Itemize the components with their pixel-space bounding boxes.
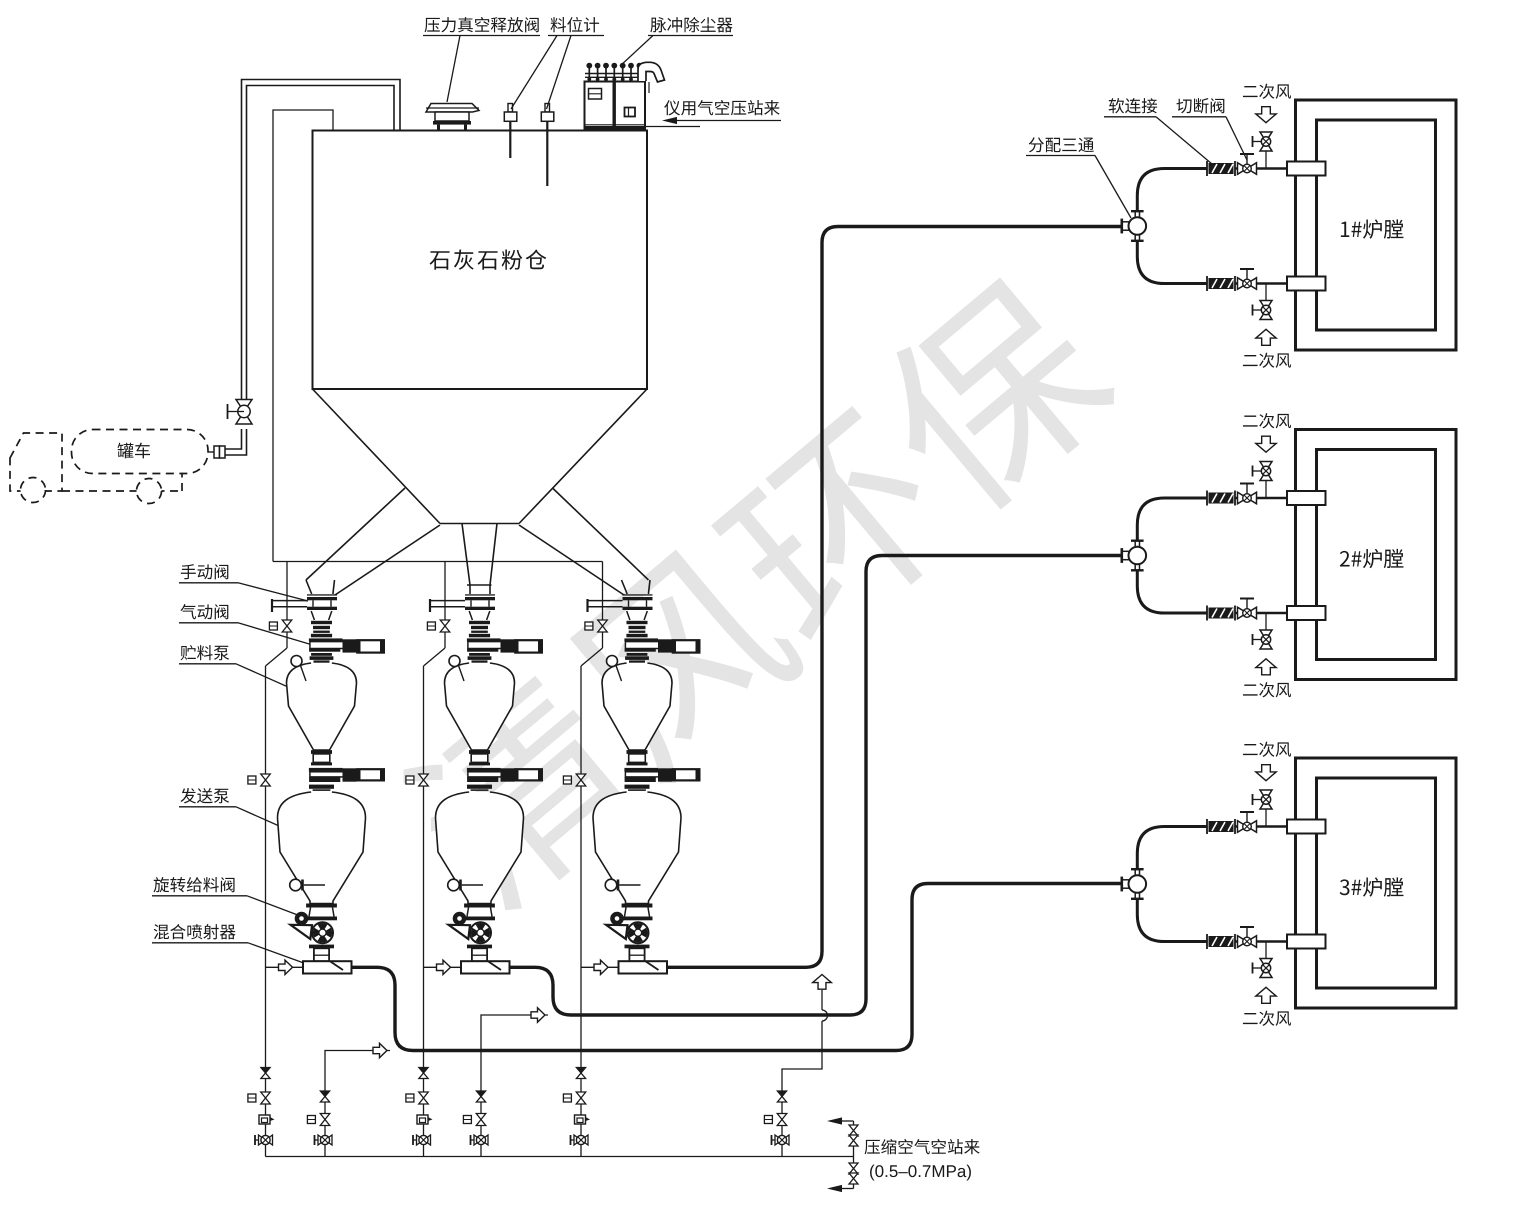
booster solenoid valve train 3 bbox=[777, 1114, 787, 1120]
feeder outlet neck train 3 bbox=[629, 948, 644, 961]
feeder motor train 1 bbox=[295, 912, 309, 926]
check valve stack-A train 3 bbox=[576, 1068, 585, 1074]
nozzle lower furnace 3 bbox=[1287, 935, 1326, 949]
furnace 2 label 2#炉膛 bbox=[1340, 549, 1404, 568]
valve actuator middle train 1 bbox=[343, 768, 357, 781]
air valve lower train 1 bbox=[261, 774, 271, 780]
ejector air inlet train 3 bbox=[581, 966, 619, 968]
manual valve 手动阀 train 3 bbox=[623, 594, 653, 595]
cutoff valve lower furnace 1 bbox=[1246, 269, 1248, 284]
sending pump level probe train 3 bbox=[605, 879, 617, 891]
valve actuator upper (气动阀) train 2 bbox=[501, 639, 515, 652]
manual valve 手动阀 train 2 bbox=[465, 594, 495, 595]
supply arrow lower bbox=[840, 1188, 854, 1190]
nozzle upper furnace 3 bbox=[1287, 820, 1326, 834]
booster air line train 2 bbox=[481, 1015, 548, 1157]
sending pump inlet flange train 2 bbox=[467, 785, 492, 789]
air valve lower train 3 bbox=[576, 774, 586, 780]
check valve stack-A train 1 bbox=[261, 1068, 270, 1074]
distribution pipe lower furnace 1 bbox=[1137, 241, 1207, 284]
furnace 1 inner wall bbox=[1317, 120, 1436, 330]
furnace 3 inner wall bbox=[1317, 778, 1436, 988]
sending pump inlet flange train 1 bbox=[309, 785, 334, 789]
booster solenoid valve train 1 bbox=[320, 1114, 330, 1120]
sending pump 发送泵 train 2 bbox=[436, 792, 524, 904]
sending pump level probe train 2 bbox=[448, 879, 460, 891]
rotary feeder valve 旋转给料阀 train 1 bbox=[309, 908, 334, 917]
cutoff valve upper furnace 1 bbox=[1246, 154, 1248, 169]
secondary air bottom furnace 3 bbox=[1265, 942, 1267, 959]
label 混合喷射器 bbox=[154, 924, 236, 939]
pressure vacuum release valve bbox=[426, 104, 479, 113]
label 仪用气空压站来 bbox=[664, 100, 779, 115]
soft connection upper furnace 2 bbox=[1206, 491, 1208, 506]
distribution tee 分配三通 furnace 2 bbox=[1121, 548, 1124, 563]
secondary air top furnace 2 bbox=[1265, 481, 1267, 498]
inlet funnel train 1 bbox=[311, 611, 332, 620]
manual valve 手动阀 train 1 bbox=[307, 594, 337, 595]
booster solenoid valve train 2 bbox=[476, 1114, 486, 1120]
truck pipe valve bbox=[236, 400, 252, 412]
air header bbox=[273, 561, 603, 563]
solenoid valve stack-A train 2 bbox=[419, 1092, 429, 1098]
soft connection lower furnace 3 bbox=[1206, 934, 1208, 949]
label 发送泵 bbox=[180, 788, 229, 803]
label 分配三通 bbox=[1029, 137, 1094, 152]
soft connection upper furnace 3 bbox=[1206, 819, 1208, 834]
air drop line train 1 bbox=[286, 562, 288, 621]
valve actuator middle train 2 bbox=[501, 768, 515, 781]
sending pump inlet flange train 3 bbox=[625, 785, 650, 789]
sending pump 发送泵 train 3 bbox=[593, 792, 681, 904]
discharge chute right bbox=[519, 488, 650, 595]
feeder motor train 3 bbox=[610, 912, 624, 926]
conveying pipe train 2 to furnace 2 bbox=[510, 556, 1122, 1016]
air drop line train 2 bbox=[444, 562, 446, 621]
soft connection lower furnace 2 bbox=[1206, 606, 1208, 621]
watermark 清风环保 bbox=[387, 259, 1128, 924]
cutoff valve lower furnace 2 bbox=[1246, 599, 1248, 614]
pneumatic valve middle train 1 bbox=[309, 768, 343, 772]
solenoid valve stack-A train 3 bbox=[576, 1092, 586, 1098]
sending pump 发送泵 train 1 bbox=[278, 792, 366, 904]
distribution pipe upper furnace 3 bbox=[1137, 827, 1207, 870]
label 脉冲除尘器 bbox=[650, 17, 732, 32]
compressed air manifold bbox=[266, 1156, 854, 1158]
label 软连接 bbox=[1109, 98, 1158, 113]
cutoff valve upper furnace 3 bbox=[1246, 812, 1248, 827]
booster check valve train 1 bbox=[320, 1091, 329, 1097]
storage pump 贮料泵 train 1 bbox=[287, 663, 357, 750]
truck unloading pipe bbox=[225, 80, 400, 456]
inlet funnel train 2 bbox=[469, 611, 490, 620]
cutoff valve lower furnace 3 bbox=[1246, 927, 1248, 942]
nozzle lower furnace 2 bbox=[1287, 606, 1326, 620]
booster shutoff valve train 3 bbox=[772, 1139, 783, 1141]
silo hopper bbox=[313, 389, 648, 524]
furnace 2 outer wall bbox=[1296, 430, 1457, 680]
air drop line train 3 bbox=[602, 562, 604, 621]
furnace 3 outer wall bbox=[1296, 758, 1457, 1008]
level gauge 1 bbox=[508, 104, 513, 113]
inlet funnel train 3 bbox=[627, 611, 648, 620]
soft connection lower furnace 1 bbox=[1206, 276, 1208, 291]
pneumatic valve upper (气动阀) train 3 bbox=[627, 621, 648, 624]
level gauge 2 bbox=[545, 104, 550, 113]
nozzle upper furnace 2 bbox=[1287, 491, 1326, 505]
label (0.5-0.7MPa) bbox=[870, 1165, 971, 1181]
instrument air arrow bbox=[668, 120, 781, 122]
pressure regulator stack-A train 1 bbox=[259, 1115, 270, 1124]
pulse jet manifold bbox=[585, 73, 646, 75]
secondary air bottom furnace 1 bbox=[1265, 284, 1267, 301]
label 切断阀 bbox=[1176, 98, 1224, 113]
storage pump 贮料泵 train 3 bbox=[602, 663, 672, 750]
dust collector outlet elbow bbox=[638, 62, 665, 82]
pneumatic valve upper (气动阀) train 2 bbox=[469, 621, 490, 624]
ejector air inlet train 2 bbox=[424, 966, 462, 968]
distribution pipe upper furnace 1 bbox=[1137, 169, 1207, 212]
supply arrow upper bbox=[840, 1120, 854, 1122]
sending pump outlet flange train 2 bbox=[464, 904, 495, 908]
storage pump 贮料泵 train 2 bbox=[445, 663, 515, 750]
feeder outlet neck train 2 bbox=[472, 948, 487, 961]
mixing ejector 混合喷射器 train 3 bbox=[619, 961, 668, 973]
compressed air supply riser bbox=[853, 1121, 855, 1189]
label 压缩空气空站来 bbox=[865, 1139, 980, 1154]
storage pump outlet flange train 2 bbox=[469, 750, 490, 754]
distribution tee 分配三通 furnace 3 bbox=[1121, 877, 1124, 892]
pressure regulator stack-A train 3 bbox=[575, 1115, 586, 1124]
storage pump outlet flange train 3 bbox=[627, 750, 648, 754]
rotary feeder rotor train 3 bbox=[628, 922, 649, 943]
air valve upper train 2 bbox=[440, 620, 450, 626]
valve actuator upper (气动阀) train 1 bbox=[343, 639, 357, 652]
air valve upper train 3 bbox=[598, 620, 608, 626]
air valve lower train 2 bbox=[419, 774, 429, 780]
shutoff valve stack-A train 3 bbox=[571, 1139, 582, 1141]
sending pump outlet flange train 1 bbox=[306, 904, 337, 908]
solenoid valve stack-A train 1 bbox=[261, 1092, 271, 1098]
rotary feeder valve 旋转给料阀 train 2 bbox=[467, 908, 492, 917]
booster shutoff valve train 2 bbox=[471, 1139, 482, 1141]
supply valve upper bbox=[849, 1125, 858, 1131]
rotary feeder rotor train 1 bbox=[312, 922, 333, 943]
furnace 2 inner wall bbox=[1317, 450, 1436, 660]
pulse dust collector bbox=[585, 82, 646, 129]
secondary air bottom furnace 2 bbox=[1265, 613, 1267, 630]
booster shutoff valve train 1 bbox=[315, 1139, 326, 1141]
sending pump level probe train 1 bbox=[290, 879, 302, 891]
limestone silo 石灰石粉仓 bbox=[313, 131, 648, 390]
label 压力真空释放阀 bbox=[425, 17, 539, 32]
discharge chute left bbox=[306, 488, 440, 595]
feeder bracket train 3 bbox=[606, 925, 628, 939]
conveying pipe train 1 to furnace 3 bbox=[352, 884, 1122, 1051]
tank truck 罐车 (dashed) bbox=[10, 430, 208, 504]
distribution pipe lower furnace 2 bbox=[1137, 570, 1207, 613]
storage pump vent port train 2 bbox=[449, 656, 460, 667]
mixing ejector 混合喷射器 train 1 bbox=[303, 961, 352, 973]
booster air line train 1 bbox=[325, 1051, 390, 1157]
supply valve lower bbox=[849, 1163, 858, 1169]
feeder motor train 2 bbox=[453, 912, 467, 926]
sending pump outlet flange train 3 bbox=[622, 904, 653, 908]
check valve stack-A train 2 bbox=[419, 1068, 428, 1074]
pressure regulator stack-A train 2 bbox=[417, 1115, 428, 1124]
valve actuator upper (气动阀) train 3 bbox=[658, 639, 672, 652]
secondary air top furnace 1 bbox=[1265, 152, 1267, 169]
distribution pipe upper furnace 2 bbox=[1137, 498, 1207, 541]
label 料位计 bbox=[551, 17, 600, 32]
mixing ejector 混合喷射器 train 2 bbox=[461, 961, 510, 973]
secondary air top furnace 3 bbox=[1265, 810, 1267, 827]
valve actuator middle train 3 bbox=[658, 768, 672, 781]
feeder outlet neck train 1 bbox=[314, 948, 329, 961]
discharge chute center bbox=[462, 524, 497, 595]
pneumatic valve middle train 2 bbox=[467, 768, 501, 772]
air valve upper train 1 bbox=[282, 620, 292, 626]
label 气动阀 bbox=[180, 604, 228, 619]
storage pump vent port train 1 bbox=[291, 656, 302, 667]
storage pump outlet flange train 1 bbox=[311, 750, 332, 754]
ejector air inlet train 1 bbox=[266, 966, 304, 968]
label 手动阀 bbox=[181, 564, 229, 579]
shutoff valve stack-A train 2 bbox=[413, 1139, 424, 1141]
nozzle lower furnace 1 bbox=[1287, 277, 1326, 291]
distribution pipe lower furnace 3 bbox=[1137, 899, 1207, 942]
feeder bracket train 2 bbox=[449, 925, 471, 939]
booster check valve train 2 bbox=[476, 1091, 485, 1097]
furnace 1 label 1#炉膛 bbox=[1341, 219, 1404, 238]
pneumatic valve middle train 3 bbox=[624, 768, 658, 772]
rotary feeder valve 旋转给料阀 train 3 bbox=[625, 908, 650, 917]
label 贮料泵 bbox=[181, 645, 230, 660]
air riser to silo top bbox=[273, 110, 333, 562]
feeder bracket train 1 bbox=[291, 925, 313, 939]
shutoff valve stack-A train 1 bbox=[255, 1139, 266, 1141]
conveying pipe train 3 to furnace 1 bbox=[667, 227, 1121, 968]
booster air line train 3 bbox=[782, 990, 822, 1157]
rotary feeder rotor train 2 bbox=[470, 922, 491, 943]
truck coupling bbox=[214, 446, 220, 458]
storage pump vent port train 3 bbox=[607, 656, 618, 667]
nozzle upper furnace 1 bbox=[1287, 162, 1326, 176]
soft connection upper furnace 1 bbox=[1206, 161, 1208, 176]
furnace 1 outer wall bbox=[1296, 100, 1457, 350]
pneumatic valve upper (气动阀) train 1 bbox=[311, 621, 332, 624]
label 旋转给料阀 bbox=[153, 877, 234, 892]
cutoff valve upper furnace 2 bbox=[1246, 484, 1248, 499]
booster check valve train 3 bbox=[777, 1091, 786, 1097]
furnace 3 label 3#炉膛 bbox=[1340, 877, 1404, 896]
distribution tee 分配三通 furnace 1 bbox=[1121, 219, 1124, 234]
